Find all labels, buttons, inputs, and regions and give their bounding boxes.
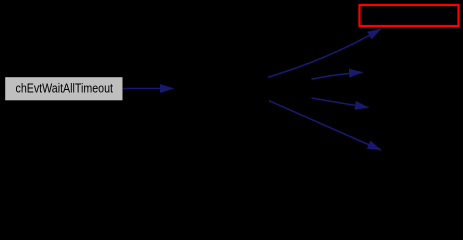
svg-text:chEvtWaitAllTimeout: chEvtWaitAllTimeout <box>16 80 114 95</box>
